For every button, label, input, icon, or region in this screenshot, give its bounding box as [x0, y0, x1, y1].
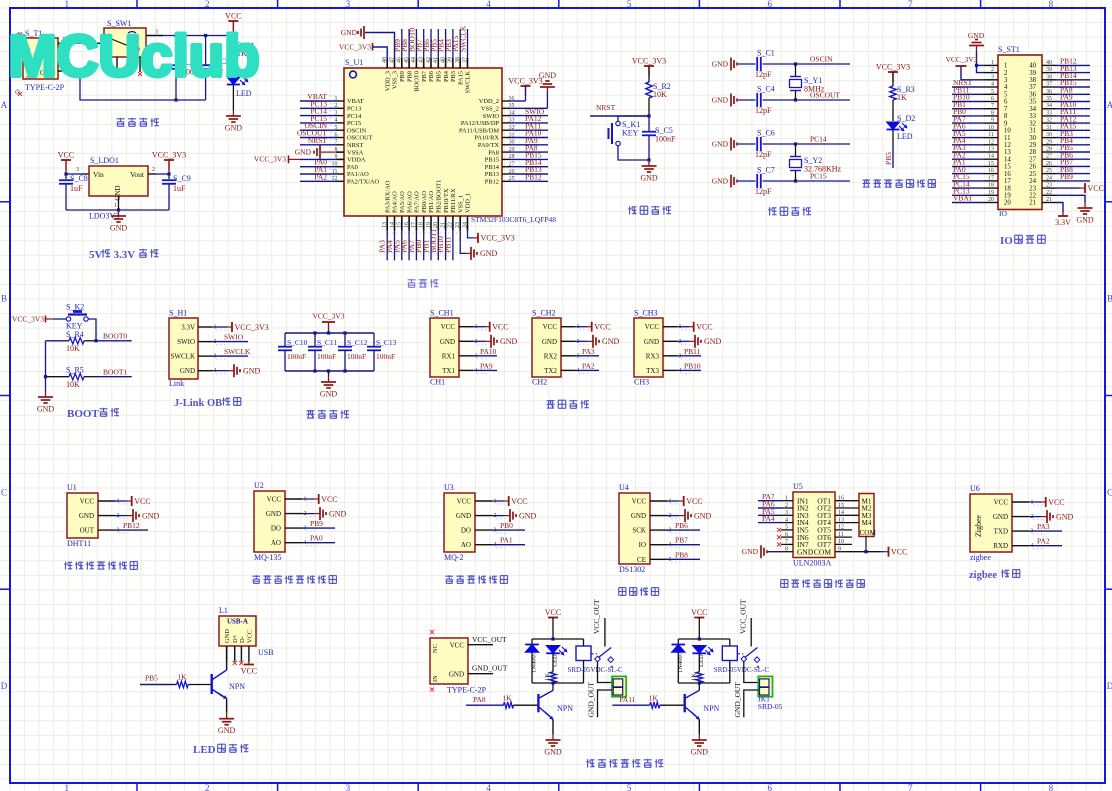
svg-text:RXD: RXD: [993, 542, 1008, 550]
svg-text:GND: GND: [544, 748, 562, 757]
U1 right pins 36-25 with net labels: [459, 96, 548, 186]
ground rail wire: [66, 196, 169, 212]
S_CH2 pin 1 VCC: [543, 322, 611, 332]
svg-text:VCC: VCC: [450, 642, 465, 650]
svg-text:GND: GND: [640, 174, 658, 183]
section label: DS1302 module: [619, 588, 626, 596]
wire rail down to C3: [205, 36, 207, 66]
capacitor S_C1 12pF: [738, 49, 850, 80]
svg-text:SRD-05VDC-SL-C: SRD-05VDC-SL-C: [714, 666, 770, 674]
svg-text:TYPE-C-2P: TYPE-C-2P: [447, 686, 487, 695]
svg-text:Zigbee: Zigbee: [974, 514, 983, 537]
svg-text:U1: U1: [67, 483, 77, 492]
svg-text:GND: GND: [797, 547, 814, 556]
U3 pin 1 VCC -> VCC: [457, 496, 528, 506]
power VCC_3V3 (ST1): [945, 55, 984, 80]
svg-text:4: 4: [785, 517, 788, 523]
svg-text:1K: 1K: [502, 694, 512, 703]
svg-text:GND: GND: [1076, 216, 1094, 225]
svg-text:VCC_3V3: VCC_3V3: [508, 77, 542, 86]
svg-text:14: 14: [988, 154, 994, 160]
svg-text:PB8: PB8: [675, 550, 688, 559]
section label: DHT11 module: [64, 562, 72, 570]
ground GND (S_C1 row): [712, 58, 737, 71]
U1 bottom pins 13-24 with net labels: [378, 180, 472, 261]
svg-text:PB7: PB7: [421, 70, 428, 82]
svg-text:6: 6: [767, 783, 772, 791]
ground GND (reset): [648, 160, 650, 166]
svg-text:GND: GND: [243, 367, 261, 376]
svg-text:BOOT: BOOT: [67, 408, 99, 420]
ground GND (S_C4 row): [712, 94, 737, 107]
svg-text:PB11: PB11: [443, 236, 452, 253]
svg-text:GND: GND: [480, 249, 498, 258]
svg-text:S_R4: S_R4: [66, 330, 84, 339]
svg-text:PB1/AO: PB1/AO: [428, 191, 435, 213]
svg-text:SWIO: SWIO: [177, 338, 195, 346]
ground GND (S_C6 row): [712, 138, 737, 151]
U5 right pins OT1-OT7,COM: [814, 496, 859, 557]
svg-text:10: 10: [988, 125, 994, 131]
svg-text:SWCLK: SWCLK: [465, 71, 472, 94]
svg-text:17: 17: [1004, 178, 1011, 185]
svg-text:KEY: KEY: [622, 129, 639, 138]
no-connect marks on S_T1: [16, 32, 23, 96]
connector S_T1 TYPE-C-2P: [23, 29, 65, 92]
svg-text:Vout: Vout: [130, 170, 145, 179]
svg-text:D: D: [1, 681, 8, 691]
svg-text:GND: GND: [712, 60, 729, 69]
svg-text:11: 11: [838, 532, 844, 538]
svg-text:40: 40: [1029, 63, 1036, 70]
capacitor S_C3 1uF: [199, 57, 229, 77]
diode 1N4007 (flyback): [672, 639, 686, 683]
svg-text:VCC_3V3: VCC_3V3: [12, 315, 44, 324]
svg-text:1: 1: [64, 783, 69, 791]
wire COM header to VCC: [847, 537, 907, 557]
header S_H1 J-Link OB: [169, 309, 198, 389]
power VCC_3V3 (LDO output): [168, 160, 170, 170]
ground GND (filter): [320, 369, 338, 398]
svg-text:40: 40: [1046, 60, 1052, 66]
header S_ST1 IO expansion: [998, 45, 1042, 218]
svg-text:GND: GND: [449, 671, 464, 679]
ground GND (power): [232, 110, 234, 116]
svg-text:7: 7: [1004, 106, 1008, 113]
svg-text:33: 33: [1046, 110, 1052, 116]
svg-text:5V: 5V: [89, 249, 103, 261]
svg-text:PA2: PA2: [582, 361, 595, 370]
relay coil box: [722, 639, 737, 683]
svg-text:IO: IO: [639, 541, 646, 549]
svg-text:S_C4: S_C4: [757, 85, 775, 94]
svg-text:Vin: Vin: [93, 170, 104, 179]
svg-text:100nF: 100nF: [317, 352, 336, 361]
svg-text:PB3: PB3: [450, 71, 457, 82]
resistor 1K (relay LED): [544, 672, 556, 683]
svg-text:18: 18: [1004, 185, 1011, 192]
svg-text:1K: 1K: [177, 673, 187, 682]
svg-text:10K: 10K: [653, 90, 667, 99]
svg-text:VBAT: VBAT: [347, 98, 364, 105]
power VCC_3V3 to U1 VDD_3: [339, 43, 387, 61]
svg-text:S_C12: S_C12: [347, 338, 368, 347]
svg-text:VCC_3V3: VCC_3V3: [876, 63, 910, 72]
svg-text:2: 2: [205, 0, 210, 9]
regulator S_LDO1 LDO3V3: [89, 156, 148, 221]
resistor S_R4 10K: [46, 330, 98, 353]
svg-text:12: 12: [1004, 142, 1011, 149]
svg-text:4: 4: [486, 783, 491, 791]
svg-text:PA4/AO: PA4/AO: [392, 191, 399, 213]
svg-text:GND: GND: [320, 390, 338, 399]
svg-text:39: 39: [1029, 70, 1036, 77]
svg-text:GND: GND: [225, 124, 243, 133]
svg-text:GND: GND: [742, 547, 759, 556]
svg-text:U2: U2: [254, 481, 264, 490]
svg-text:12: 12: [988, 139, 994, 145]
svg-text:13: 13: [382, 222, 388, 228]
svg-text:S_CH1: S_CH1: [430, 309, 454, 318]
svg-text:37: 37: [1046, 82, 1052, 88]
U6 pin 3 TXD -> PA3: [994, 522, 1062, 536]
svg-text:29: 29: [1029, 142, 1036, 149]
svg-text:PB10: PB10: [684, 361, 701, 370]
svg-text:1: 1: [114, 203, 117, 209]
svg-text:OSCOUT: OSCOUT: [347, 135, 373, 142]
module U2 (MQ-135): [254, 481, 285, 562]
svg-text:VCC: VCC: [545, 608, 561, 617]
svg-text:VCC_3V3: VCC_3V3: [235, 323, 269, 332]
svg-text:PB7: PB7: [675, 536, 688, 545]
U6 pin 1 VCC -> VCC: [994, 497, 1065, 507]
transistor NPN (relay driver): [538, 683, 573, 734]
svg-text:14: 14: [1004, 156, 1011, 163]
svg-text:PC14: PC14: [810, 135, 827, 144]
svg-text:PA9: PA9: [480, 361, 493, 370]
svg-text:VCC: VCC: [267, 496, 282, 504]
svg-text:VCC: VCC: [246, 630, 253, 643]
svg-text:16: 16: [988, 168, 994, 174]
svg-text:GND: GND: [712, 96, 729, 105]
svg-text:36: 36: [1046, 89, 1052, 95]
svg-text:10K: 10K: [66, 380, 80, 389]
svg-text:16: 16: [838, 496, 844, 502]
svg-text:22: 22: [448, 222, 454, 228]
svg-text:VCC: VCC: [594, 323, 610, 332]
svg-text:DO: DO: [461, 527, 471, 535]
svg-text:PA5/AO: PA5/AO: [399, 191, 406, 213]
svg-text:GND: GND: [224, 629, 231, 643]
svg-text:TX1: TX1: [442, 367, 455, 375]
net label PA11 with wire: [612, 695, 650, 705]
svg-text:VCC_OUT: VCC_OUT: [592, 599, 601, 634]
svg-text:16: 16: [1004, 171, 1011, 178]
relay switch contact + VCC_OUT: [591, 599, 614, 668]
S_CH3 pin 4 TX3: [646, 361, 701, 375]
svg-text:PB15: PB15: [485, 157, 499, 164]
svg-text:GND: GND: [79, 512, 94, 520]
svg-text:12pF: 12pF: [755, 187, 772, 196]
svg-text:GND: GND: [218, 726, 236, 735]
svg-text:2: 2: [152, 167, 155, 173]
resistor 1K (relay LED): [690, 672, 702, 683]
svg-text:5: 5: [1004, 92, 1008, 99]
U2 pin 3 DO -> PB9: [271, 519, 335, 533]
svg-text:PA0: PA0: [310, 534, 323, 543]
svg-text:VDDA: VDDA: [347, 157, 366, 164]
crystal S_Y2 32.768KHz: [790, 144, 842, 181]
net label PA4 -> U5 IN4: [758, 514, 781, 523]
svg-text:10K: 10K: [66, 344, 80, 353]
svg-text:1: 1: [64, 0, 69, 9]
svg-text:PA12/USB/DP: PA12/USB/DP: [461, 120, 500, 127]
svg-text:GND: GND: [500, 337, 518, 346]
svg-text:30: 30: [1046, 132, 1052, 138]
svg-text:VCC: VCC: [1048, 498, 1064, 507]
svg-text:S_H1: S_H1: [169, 309, 187, 318]
svg-text:PA1: PA1: [500, 536, 513, 545]
svg-text:19: 19: [1004, 193, 1011, 200]
bottom rail wire: [58, 65, 206, 102]
ground GND to U1 VSSA: [295, 146, 344, 159]
svg-text:CH1: CH1: [430, 378, 445, 387]
svg-text:16: 16: [404, 222, 410, 228]
svg-text:25: 25: [1029, 171, 1036, 178]
ground GND (ST1 top): [968, 31, 985, 73]
U1 left pins 1-12 with net labels: [297, 92, 379, 186]
net label VCC_OUT wire: [468, 635, 507, 645]
resistor 1K (relay base): [649, 694, 685, 709]
svg-text:PC14: PC14: [347, 113, 362, 120]
capacitor S_C8 1uF: [59, 174, 88, 210]
svg-text:20: 20: [1004, 200, 1011, 207]
svg-text:7: 7: [908, 0, 913, 9]
power VCC_3V3 (reset): [648, 66, 650, 76]
ground GND (ST1 pin22): [1056, 195, 1094, 224]
ground GND (relay): [552, 734, 554, 740]
capacitor S_C11 100nF: [308, 331, 337, 372]
svg-text:D-: D-: [239, 636, 246, 643]
svg-text:21: 21: [1046, 197, 1052, 203]
wire Vout to VCC_3V3: [148, 160, 171, 176]
svg-text:S_C6: S_C6: [757, 129, 775, 138]
svg-text:J-Link OB: J-Link OB: [174, 398, 222, 409]
svg-text:GND: GND: [37, 405, 55, 414]
svg-text:36: 36: [1029, 92, 1036, 99]
power VCC (USB): [241, 662, 257, 676]
svg-text:GND: GND: [142, 511, 160, 520]
net label BOOT0: [96, 332, 132, 341]
S_CH1 pin 2 GND: [440, 335, 518, 348]
svg-text:GND: GND: [295, 148, 312, 157]
labels JK1 SRD-05: [758, 695, 783, 712]
net label NRST: [590, 103, 651, 118]
svg-text:2: 2: [991, 67, 994, 73]
wire switch to output connector: [744, 661, 759, 683]
section label: filter circuit: [307, 410, 315, 418]
svg-text:GND_OUT: GND_OUT: [472, 664, 508, 673]
svg-text:S_CH2: S_CH2: [532, 309, 556, 318]
svg-text:3: 3: [76, 167, 79, 173]
svg-text:VSS_2: VSS_2: [481, 106, 499, 113]
svg-text:8: 8: [991, 110, 994, 116]
wire rail down to C2: [175, 36, 177, 66]
svg-text:VCC: VCC: [58, 151, 74, 160]
svg-text:VCC: VCC: [80, 498, 95, 506]
svg-text:19: 19: [988, 190, 994, 196]
svg-text:RX2: RX2: [544, 352, 558, 360]
header S_CH3: [634, 309, 663, 387]
svg-text:GND_OUT: GND_OUT: [733, 682, 742, 718]
crystal S_Y1 8MHz: [790, 64, 825, 100]
svg-text:L1: L1: [219, 606, 228, 615]
capacitor S_C10 100nF: [278, 333, 308, 371]
resistor S_R3 1K: [890, 72, 915, 121]
svg-text:3: 3: [346, 783, 351, 791]
module U1 (DHT11): [67, 483, 98, 548]
svg-text:PB6: PB6: [675, 521, 688, 530]
svg-text:PA4: PA4: [762, 514, 775, 523]
svg-text:PB13: PB13: [485, 171, 499, 178]
svg-text:24: 24: [462, 222, 468, 228]
svg-text:VCC: VCC: [686, 497, 702, 506]
capacitor S_C13 100nF: [367, 333, 397, 371]
svg-text:GND: GND: [539, 71, 557, 80]
LED S_D1: [227, 77, 252, 110]
svg-text:VDD_3: VDD_3: [384, 71, 391, 91]
svg-text:PA9/TX: PA9/TX: [478, 142, 499, 149]
svg-text:GND: GND: [329, 509, 347, 518]
svg-text:PA3: PA3: [1037, 522, 1050, 531]
svg-text:NPN: NPN: [557, 704, 573, 713]
capacitor S_C2 100nF: [169, 57, 203, 77]
svg-text:NRST: NRST: [347, 142, 363, 149]
svg-text:OSCIN: OSCIN: [347, 127, 367, 134]
net GND_OUT (relay output): [733, 682, 759, 718]
LED (relay indicator): [693, 646, 714, 672]
svg-text:18: 18: [419, 222, 425, 228]
svg-text:MQ-2: MQ-2: [444, 553, 464, 562]
capacitor S_C4 12pF: [738, 85, 850, 116]
svg-text:1: 1: [1004, 63, 1007, 70]
ground GND -> U5 pin8: [742, 545, 781, 558]
svg-text:GND: GND: [631, 512, 646, 520]
svg-text:NRST: NRST: [308, 136, 328, 145]
svg-text:GND: GND: [1056, 512, 1074, 521]
capacitor S_C5 100nF: [642, 116, 676, 162]
svg-text:8: 8: [1004, 113, 1008, 120]
svg-text:4: 4: [1004, 84, 1008, 91]
svg-text:zigbee: zigbee: [969, 570, 997, 581]
U1 pin 1 VCC -> VCC: [80, 496, 151, 506]
svg-text:32: 32: [1046, 118, 1052, 124]
S_ST1 left pins 1-20: [952, 60, 1011, 207]
svg-text:19: 19: [426, 222, 432, 228]
svg-text:VCC: VCC: [994, 499, 1009, 507]
svg-text:SRD-05VDC-SL-C: SRD-05VDC-SL-C: [568, 666, 624, 674]
svg-text:C: C: [1107, 487, 1112, 497]
svg-text:14: 14: [389, 222, 395, 228]
S_CH1 pin 4 TX1: [442, 361, 497, 375]
svg-text:3: 3: [991, 74, 994, 80]
capacitor S_C6 12pF: [738, 129, 850, 160]
svg-text:TX3: TX3: [646, 367, 659, 375]
U4 pin 5 CE -> PB8: [637, 550, 700, 564]
svg-text:1K: 1K: [649, 694, 659, 703]
capacitor S_C7 12pF: [738, 166, 850, 197]
svg-text:5: 5: [627, 783, 632, 791]
module U3 (MQ-2): [444, 483, 475, 562]
svg-text:6: 6: [785, 532, 788, 538]
svg-text:ULN2003A: ULN2003A: [793, 559, 831, 568]
U6 pin 4 RXD -> PA2: [993, 537, 1062, 551]
svg-text:PB5: PB5: [145, 674, 158, 683]
svg-text:PA10: PA10: [480, 347, 497, 356]
U2 pin 1 VCC -> VCC: [267, 494, 338, 504]
connector motor header M1-M4: [859, 494, 876, 538]
svg-text:PA6/AO: PA6/AO: [406, 191, 413, 213]
svg-text:U5: U5: [793, 482, 803, 491]
S_CH1 pin 1 VCC: [441, 322, 509, 332]
svg-text:9: 9: [991, 118, 994, 124]
svg-text:VCC_OUT: VCC_OUT: [472, 635, 507, 644]
svg-text:28: 28: [1029, 149, 1036, 156]
svg-text:12pF: 12pF: [755, 150, 772, 159]
svg-text:PB9: PB9: [310, 519, 323, 528]
svg-text:SWCLK: SWCLK: [224, 347, 251, 356]
net label PA5 -> U5 IN3: [758, 507, 781, 516]
svg-text:7: 7: [908, 783, 913, 791]
svg-text:VCC_OUT: VCC_OUT: [738, 599, 747, 634]
section label: program run indicator: [862, 179, 870, 187]
S_ST1 right pins 40-21: [1029, 57, 1090, 207]
wire C2 to bottom rail: [175, 69, 177, 100]
svg-text:PA11: PA11: [619, 695, 635, 704]
svg-text:VCC: VCC: [511, 497, 527, 506]
svg-text:S_CH3: S_CH3: [634, 309, 658, 318]
svg-text:U3: U3: [444, 483, 454, 492]
net GND_OUT (relay output): [587, 682, 613, 718]
svg-text:21: 21: [440, 222, 446, 228]
svg-text:38: 38: [1046, 74, 1052, 80]
svg-text:VCC: VCC: [225, 12, 241, 21]
svg-text:5: 5: [785, 525, 788, 531]
svg-text:OSCIN: OSCIN: [810, 55, 833, 64]
svg-text:S_C8: S_C8: [70, 174, 88, 183]
svg-text:100nF: 100nF: [287, 352, 306, 361]
capacitor S_C12 100nF: [338, 331, 368, 372]
svg-text:DHT11: DHT11: [67, 539, 91, 548]
svg-text:PA3/RX/AO: PA3/RX/AO: [384, 180, 391, 213]
svg-text:8: 8: [1049, 0, 1054, 9]
svg-text:NRST: NRST: [596, 103, 616, 112]
capacitor S_C9 1uF: [162, 174, 191, 210]
ground GND (LDO): [118, 210, 120, 216]
svg-text:GND: GND: [456, 512, 471, 520]
svg-text:SWIO: SWIO: [224, 333, 244, 342]
svg-text:12: 12: [838, 525, 844, 531]
svg-text:7: 7: [785, 539, 788, 545]
wire VCC to LDO Vin: [64, 160, 89, 176]
svg-text:38: 38: [1029, 77, 1036, 84]
svg-text:6: 6: [767, 0, 772, 9]
relay bottom rail wire: [678, 681, 730, 684]
svg-text:IO: IO: [1000, 235, 1013, 247]
U6 pin 2 GND -> GND: [993, 510, 1074, 523]
svg-text:27: 27: [1046, 154, 1052, 160]
S_CH2 pin 3 RX2: [544, 347, 599, 361]
